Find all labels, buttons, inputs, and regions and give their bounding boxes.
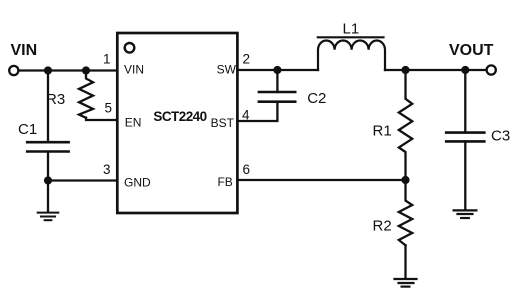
svg-text:VIN: VIN [11,42,38,59]
svg-text:R3: R3 [46,91,65,108]
svg-text:VOUT: VOUT [449,42,494,59]
wire R3 to EN pin 5 [86,118,117,120]
ground G2 [395,279,417,287]
op-amp U1 SCT2240 body [117,33,237,213]
wire C1 top branch [47,71,49,143]
wire GND pin 3 [48,179,117,181]
terminal VOUT [487,65,496,74]
svg-text:R2: R2 [373,218,392,235]
junction VIN/C1 [44,66,52,74]
junction FB node [401,176,409,184]
wire C3 bottom to ground [464,141,466,210]
svg-text:2: 2 [243,52,251,67]
wire C2 top branch [276,70,278,92]
capacitor C3 [446,133,484,142]
wire VOUT rail [385,69,487,71]
ground G1 [38,213,59,221]
wire FB pin 6 [237,179,405,181]
junction ground node [44,176,52,184]
wire C2 bottom to BST pin 4 [237,102,277,121]
junction SW/C2 [273,66,281,74]
wire SW pin 2 [237,69,318,71]
wire VIN rail [19,69,118,71]
svg-text:SCT2240: SCT2240 [153,109,206,124]
svg-text:C2: C2 [307,90,326,107]
svg-text:VIN: VIN [124,63,144,77]
junction C3 tap [461,66,469,74]
svg-text:3: 3 [103,162,111,177]
resistor R1 [399,70,412,180]
svg-text:1: 1 [103,52,111,67]
svg-text:C1: C1 [18,121,37,138]
svg-text:FB: FB [217,175,232,189]
svg-text:GND: GND [124,176,151,190]
svg-text:C3: C3 [491,128,510,145]
junction VIN/R3 [82,66,90,74]
wire C1 bottom to ground node [47,152,49,181]
wire C3 top branch [464,70,466,133]
svg-text:EN: EN [125,116,142,130]
svg-text:SW: SW [217,62,237,76]
svg-text:5: 5 [104,101,112,116]
wire R2 to ground [404,245,406,278]
capacitor C1 [27,142,68,151]
pin 1 indicator circle [125,43,135,53]
svg-text:R1: R1 [373,123,392,140]
resistor R3 [79,71,93,118]
resistor R2 [399,180,412,245]
svg-text:BST: BST [211,116,235,130]
svg-text:L1: L1 [343,21,360,38]
junction R1 tap [401,66,409,74]
terminal VIN [9,66,18,75]
wire ground stub [47,181,49,213]
ground G3 [454,210,477,218]
inductor L1 [318,37,385,70]
svg-text:6: 6 [243,162,251,177]
capacitor C2 [259,92,295,102]
